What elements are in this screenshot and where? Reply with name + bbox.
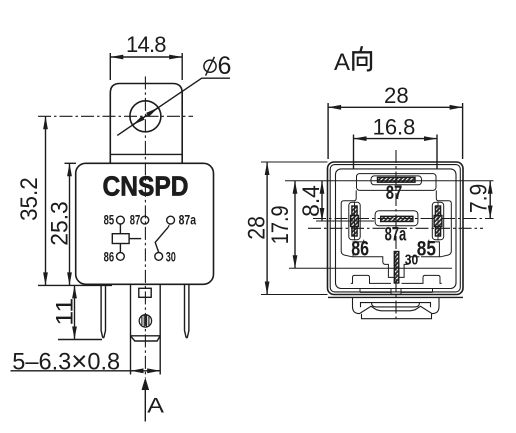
view arrow A (144, 382, 146, 422)
svg-text:6: 6 (218, 52, 232, 80)
slot 87a (hatched) (381, 216, 413, 221)
slot 87 (hatched) (378, 177, 416, 182)
dim 14.8 dimension line (110, 56, 182, 58)
dim 16.8 extension right (436, 135, 438, 169)
svg-text:28: 28 (243, 216, 270, 240)
svg-text:86: 86 (351, 238, 369, 261)
slot 30 (hatched) (394, 252, 399, 284)
slot 86 bubble (349, 202, 360, 239)
svg-text:30: 30 (166, 250, 176, 265)
dim 11 dimension line (74, 285, 76, 339)
dim 16.8 extension left (353, 135, 355, 169)
svg-text:CNSPD: CNSPD (103, 170, 189, 201)
dia 6 leader arrow lower (133, 116, 146, 125)
extension line at blade tips (58, 339, 102, 341)
dim 8.4 bottom extension (316, 220, 374, 222)
svg-text:14.8: 14.8 (126, 32, 167, 57)
dim 5-6.3x0.8 dimension line (11, 370, 161, 372)
coil K1 rectangle (112, 234, 129, 244)
svg-text:87: 87 (386, 183, 403, 204)
wire coil to centerline (129, 238, 141, 240)
svg-text:28: 28 (384, 83, 409, 108)
relay base outer outline (328, 162, 464, 295)
dim 7.9 dimension line (489, 181, 491, 219)
dim 28 top dimension line (328, 106, 463, 108)
blade 30 square hole (139, 288, 151, 297)
blade 30 round hole (hatched) (139, 315, 151, 327)
dim 28 extension right (462, 103, 464, 159)
pin 86 circle (117, 253, 125, 261)
main vertical centerline (144, 76, 146, 378)
label 85 step (429, 240, 440, 257)
blade width arrow right (149, 370, 160, 372)
foot line right (402, 289, 433, 293)
wire coil to 86 (119, 244, 121, 253)
reference line at slot 87 center (285, 180, 494, 182)
dia 6 leader arrow upper (145, 108, 158, 117)
dim 25.3 top extension line (65, 162, 77, 164)
bracket bottom bar (362, 314, 432, 319)
blade 30 chamfer (131, 336, 161, 341)
dim 35.2 dimension line (45, 116, 47, 285)
bracket inner slot line (361, 303, 431, 308)
blade width arrow left (131, 370, 142, 372)
terminal blade left (101, 284, 105, 337)
hole horizontal centerline (38, 115, 193, 117)
pocket outer contour left (341, 190, 451, 277)
bottom center tab (391, 289, 401, 295)
slot 85 bubble (432, 202, 443, 239)
slot 86 centerline tick (354, 202, 356, 241)
dim 28 left dimension line (266, 162, 268, 295)
dim 14.8 extension line left (109, 53, 111, 80)
pocket upper recess (357, 174, 437, 191)
mounting tab (110, 84, 182, 165)
terminal blade 30 (center, wide) left edge (130, 284, 132, 374)
dia symbol slash (206, 57, 215, 76)
svg-text:86: 86 (104, 250, 115, 265)
pin 87a circle (167, 216, 175, 224)
vertical centerline of base (395, 150, 397, 322)
bracket top edge line (328, 296, 463, 298)
svg-text:87: 87 (130, 212, 141, 227)
switch arm 30 to 87a (155, 225, 169, 253)
slot row centerline (87a/86/85) (313, 218, 494, 220)
dim 17.9 bottom extension (289, 267, 452, 269)
slot 86 bulge (351, 216, 359, 227)
svg-text:25.3: 25.3 (46, 201, 73, 246)
svg-text:16.8: 16.8 (373, 114, 416, 139)
slot 87a bubble (375, 211, 418, 226)
svg-text:35.2: 35.2 (16, 177, 43, 221)
svg-text:85: 85 (417, 238, 436, 261)
foot line left (360, 289, 391, 293)
pin 30 circle (155, 253, 163, 261)
bracket outer profile (353, 298, 440, 314)
mounting hole (130, 101, 161, 132)
label 86 step (353, 240, 364, 257)
dia symbol circle (204, 60, 216, 72)
dim 28 extension left (327, 103, 329, 159)
terminal blade 30 right edge (159, 284, 161, 374)
slot 86 (hatched) (352, 206, 357, 236)
svg-text:85: 85 (104, 212, 115, 227)
dim 14.8 extension line right (181, 53, 183, 80)
svg-text:87a: 87a (179, 212, 197, 227)
bracket tongue (372, 303, 420, 307)
dia 6 leader line (117, 78, 230, 135)
svg-text:A: A (334, 49, 350, 76)
pin 87 circle (141, 216, 149, 224)
bottom tray plateau right (402, 275, 442, 283)
dim 8.4 dimension line (321, 181, 323, 221)
svg-text:8.4: 8.4 (298, 185, 325, 217)
svg-text:5–6.3×0.8: 5–6.3×0.8 (12, 346, 120, 377)
relay base inner face (336, 169, 457, 289)
svg-text:17.9: 17.9 (267, 205, 294, 244)
relay base outer inset line (330, 165, 460, 292)
tab bend line (110, 153, 182, 155)
dim 17.9 dimension line (294, 181, 296, 269)
svg-text:87a: 87a (385, 224, 407, 245)
slot 85 centerline tick (437, 202, 439, 241)
shared extension line at body bottom (38, 284, 112, 286)
terminal blade right (185, 284, 189, 337)
dim 16.8 dimension line (354, 138, 438, 140)
svg-text:11: 11 (52, 298, 79, 326)
svg-text:30: 30 (405, 252, 419, 268)
pin 85 circle (117, 216, 125, 224)
slot 85 (hatched) (435, 206, 440, 236)
slot 87 bubble (371, 176, 422, 185)
glyph xiang (direction) drawn manually (353, 46, 371, 71)
bottom tray plateau left (351, 275, 391, 283)
wire 85 to coil (119, 224, 121, 234)
dim 28 left top extension (261, 161, 328, 163)
svg-text:7.9: 7.9 (465, 184, 492, 214)
dim 28 left bottom extension (261, 294, 328, 296)
svg-text:A: A (147, 393, 164, 417)
slot 85 bulge (434, 216, 442, 227)
dim 25.3 dimension line (69, 163, 71, 285)
horizontal centerline of base (308, 227, 483, 229)
relay body outline (76, 163, 214, 284)
